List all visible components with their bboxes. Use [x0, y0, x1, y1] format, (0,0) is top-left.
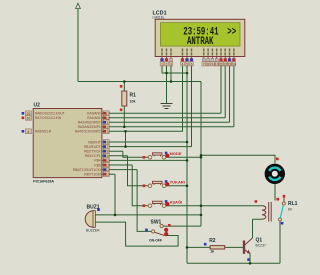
wire buzzer bottom to SW1 lever	[96, 222, 179, 246]
wire LCD RS to RA4 row	[108, 66, 182, 131]
svg-text:14: 14	[232, 62, 236, 66]
svg-text:6: 6	[191, 62, 193, 66]
ground symbol	[161, 104, 173, 109]
wire RA4 jog to RB1 row	[125, 131, 127, 146]
relay RL1	[255, 195, 298, 225]
wire MODE right to rail B	[166, 156, 201, 158]
wire LCD D6 vertical	[229, 66, 231, 122]
wire LCD E vertical to RB1 row	[191, 66, 193, 147]
DC motor	[265, 158, 285, 184]
svg-text:R1: R1	[130, 93, 137, 99]
svg-text:9: 9	[212, 62, 214, 66]
svg-text:12: 12	[106, 168, 110, 172]
svg-text:RB4: RB4	[94, 159, 100, 163]
wire YUKARI right to rail B	[166, 185, 187, 187]
svg-text:RA3/AN3/CMP1: RA3/AN3/CMP1	[78, 125, 101, 129]
svg-text:RA1/AN1: RA1/AN1	[87, 116, 101, 120]
svg-text:ANTRAK: ANTRAK	[187, 35, 214, 48]
svg-text:RA6/OSC2/CLKOUT: RA6/OSC2/CLKOUT	[35, 112, 65, 116]
svg-text:YUKARI: YUKARI	[170, 179, 185, 184]
wire bottom bus	[187, 262, 280, 264]
push button MODE	[143, 151, 182, 159]
svg-text:4: 4	[182, 62, 184, 66]
wire ASAGI right through rail B to relay coil	[166, 205, 262, 207]
push button ASAGI	[143, 199, 183, 207]
svg-text:U2: U2	[34, 102, 41, 108]
svg-text:2: 2	[166, 62, 168, 66]
svg-text:R2: R2	[209, 238, 216, 244]
svg-text:RA0/AN0: RA0/AN0	[87, 112, 101, 116]
svg-text:4: 4	[27, 130, 29, 134]
wire RB4 row to rail A	[108, 159, 187, 161]
svg-text:1: 1	[161, 62, 163, 66]
svg-text:5: 5	[186, 62, 188, 66]
wire LCD VEE stub to VCC bus	[170, 66, 172, 82]
svg-text:RA7/OSC1/CLKIN: RA7/OSC1/CLKIN	[35, 116, 62, 120]
wire LCD D7 vertical	[233, 66, 235, 127]
wire LCD VSS/VDD stubs	[162, 66, 167, 73]
svg-text:RB0/INT: RB0/INT	[88, 140, 100, 144]
svg-text:RB6/T1OSO/T1CKI: RB6/T1OSO/T1CKI	[73, 168, 101, 172]
wire VCC stem	[77, 9, 79, 82]
svg-text:12: 12	[223, 62, 227, 66]
resistor R2	[204, 238, 225, 254]
wire motor bottom lead	[274, 184, 276, 201]
svg-text:RL1: RL1	[288, 201, 298, 207]
svg-text:7: 7	[107, 145, 109, 149]
wire RB3 to YUKARI button	[108, 156, 148, 186]
svg-text:RA4/T0CKI/CMP2: RA4/T0CKI/CMP2	[75, 130, 101, 134]
wire ground drop	[166, 73, 168, 103]
svg-text:10: 10	[106, 159, 110, 163]
svg-text:10k: 10k	[130, 100, 136, 104]
svg-text:Q1: Q1	[256, 238, 263, 244]
wire LCD ground bus	[162, 72, 187, 74]
wire RB1 row to E corner	[108, 146, 191, 148]
svg-text:SW1: SW1	[151, 220, 162, 226]
svg-text:13: 13	[106, 173, 110, 177]
microcontroller U2	[33, 102, 102, 183]
svg-text:BUZZER: BUZZER	[86, 228, 100, 232]
wire RB7 to buzzer top	[108, 174, 115, 215]
power flag VCC	[76, 3, 81, 8]
LCD pin marks, stubs, state squares, numbers	[160, 49, 236, 67]
wire R1 bottom lead	[123, 106, 125, 127]
svg-text:PIC16F628A: PIC16F628A	[33, 179, 54, 183]
U2 pin rows (names, numbers, state squares)	[22, 111, 110, 177]
svg-text:RB3/CCP1: RB3/CCP1	[85, 154, 101, 158]
svg-text:3: 3	[170, 62, 172, 66]
svg-text:11: 11	[106, 164, 110, 168]
wire RB0 row to rail A	[108, 141, 187, 143]
svg-text:10: 10	[215, 62, 219, 66]
wire RA2 row to D6	[108, 121, 229, 123]
svg-text:AŞAĞI: AŞAĞI	[170, 199, 183, 204]
svg-text:>>: >>	[227, 25, 236, 38]
svg-text:6: 6	[107, 141, 109, 145]
wire RB6 to SW1 left	[108, 170, 151, 232]
resistor R1	[120, 85, 136, 111]
svg-text:8: 8	[207, 62, 209, 66]
wire R2 feed from rail A	[187, 246, 210, 248]
wire RA1 row to D5	[108, 117, 225, 119]
svg-text:7: 7	[203, 62, 205, 66]
wire Q1 emitter riser	[249, 253, 251, 263]
buzzer BUZ1	[85, 204, 100, 232]
wire LCD RW rail A (down to bottom bus)	[186, 66, 188, 263]
svg-text:RB5: RB5	[94, 163, 100, 167]
svg-text:11: 11	[219, 62, 223, 66]
svg-text:13: 13	[228, 62, 232, 66]
svg-text:16: 16	[26, 116, 30, 120]
svg-text:RA5/MCLR: RA5/MCLR	[35, 130, 52, 134]
svg-text:8: 8	[107, 150, 109, 154]
svg-text:1k: 1k	[210, 250, 214, 254]
wire RB5 to ASAGI button	[108, 165, 148, 206]
svg-text:ON-OFF: ON-OFF	[149, 239, 162, 243]
svg-text:6V: 6V	[288, 208, 293, 212]
transistor Q1	[244, 238, 266, 261]
wire rail B (VCC rail x=201)	[200, 82, 202, 227]
wire buzzer top bus to rail B	[96, 214, 202, 216]
svg-text:3: 3	[107, 130, 109, 134]
svg-text:RA2/AN2/VREF: RA2/AN2/VREF	[78, 121, 101, 125]
svg-text:RB1/RX/DT: RB1/RX/DT	[84, 145, 101, 149]
wire relay coil bottom lead to Q1 collector	[253, 219, 263, 238]
LCD display LCD1	[153, 11, 245, 57]
wire R1 top lead	[123, 82, 125, 92]
push button YUKARI	[143, 179, 185, 187]
wire RB2 to MODE button	[108, 151, 148, 157]
svg-text:9: 9	[107, 154, 109, 158]
svg-text:RB2/TX/CK: RB2/TX/CK	[84, 150, 101, 154]
wire R2 to Q1 base	[225, 246, 243, 248]
wire VCC horizontal bus	[78, 81, 201, 83]
svg-text:MODE: MODE	[170, 151, 182, 156]
switch SW1	[145, 220, 170, 243]
wire RA0 row to D4	[108, 112, 221, 114]
wire motor feed	[201, 155, 275, 163]
svg-text:RB7/T1OSI: RB7/T1OSI	[84, 173, 100, 177]
wire relay lever bottom riser	[279, 221, 281, 263]
wire SW1 right to rail B	[163, 225, 201, 227]
wire LCD D4 vertical	[220, 66, 222, 113]
wire LCD D5 vertical	[224, 66, 226, 118]
wire RA3 row to D7	[108, 126, 234, 128]
svg-text:BC237: BC237	[256, 244, 266, 248]
